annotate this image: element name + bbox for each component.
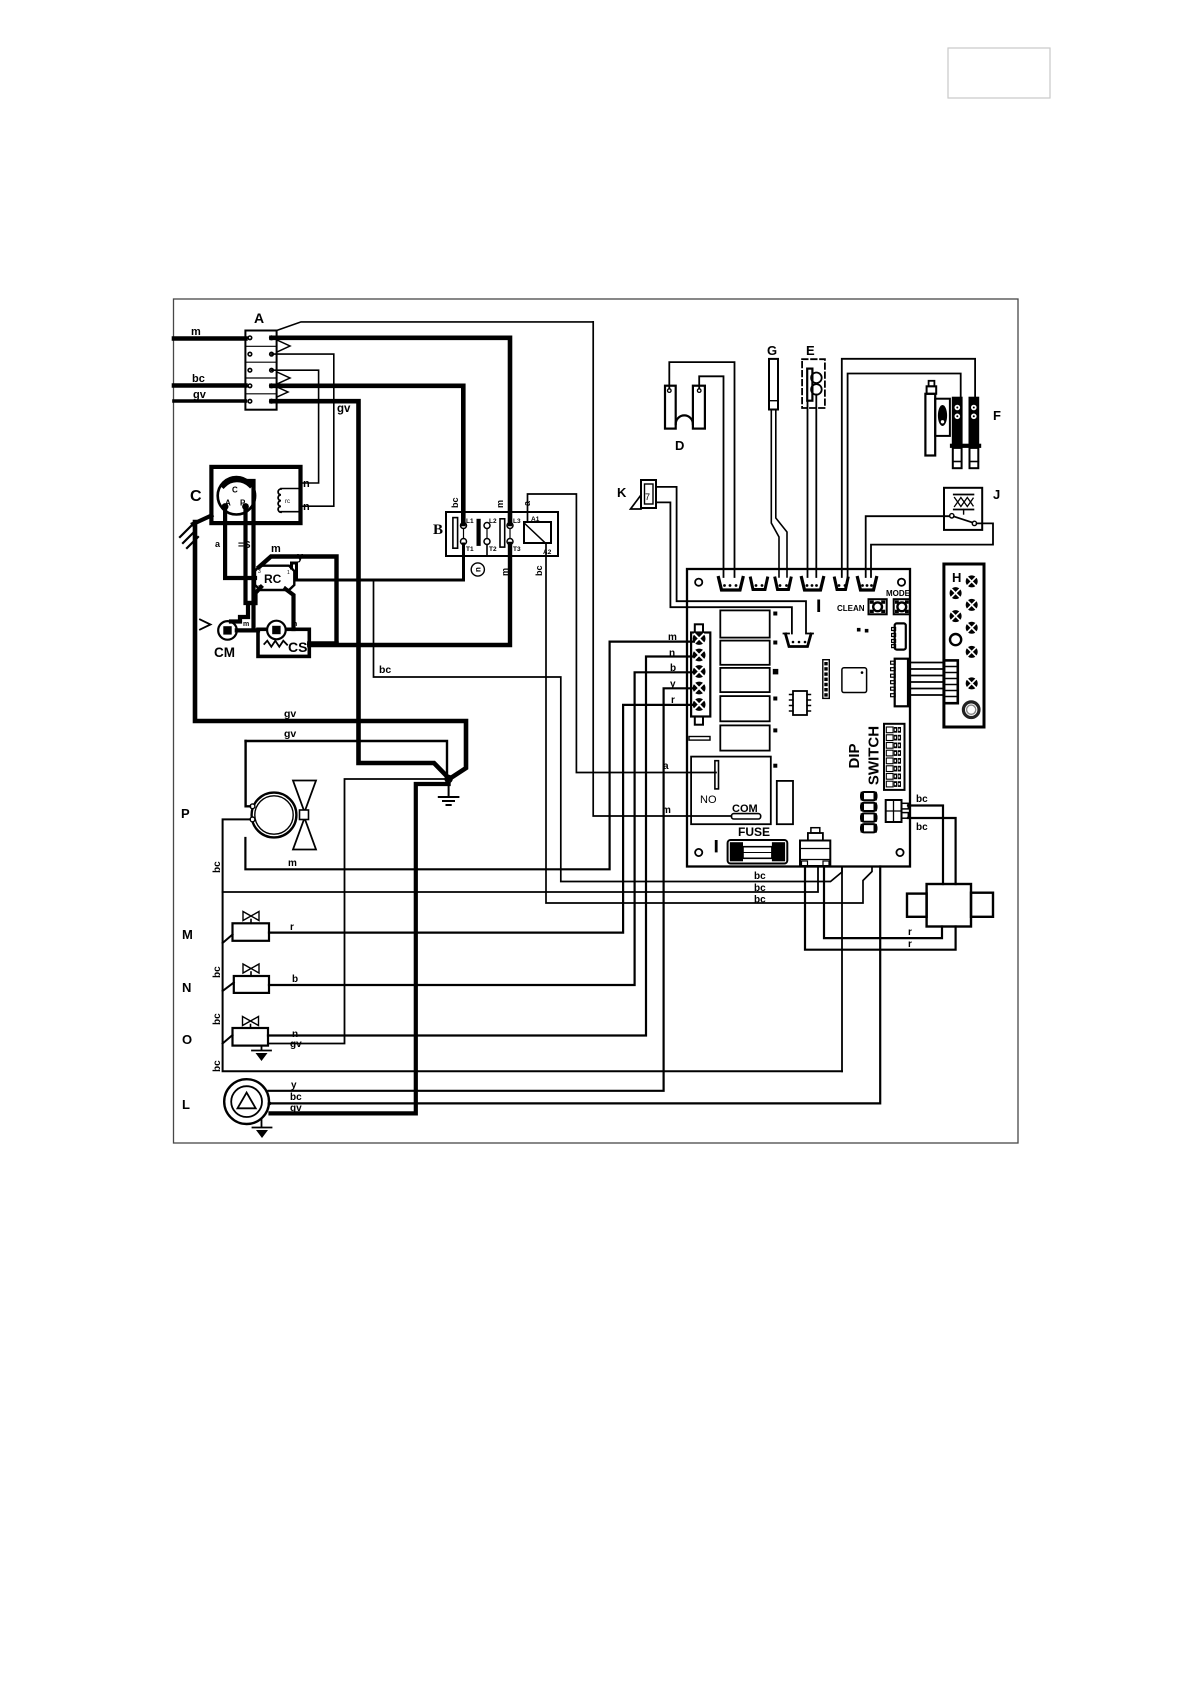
svg-text:NO: NO	[700, 794, 717, 806]
wire bc from A row4 to contactor B pole L1	[272, 386, 464, 524]
wire D lead2 to board conn1	[699, 376, 723, 577]
wire y from pump L to board pin y	[269, 688, 695, 1091]
thermostat J box	[944, 488, 982, 530]
terminal block A pin dots	[247, 335, 274, 404]
svg-text:r: r	[908, 939, 912, 950]
K lever	[631, 495, 642, 509]
svg-text:bc: bc	[379, 664, 391, 676]
svg-text:L2: L2	[489, 518, 497, 525]
top connector 1	[719, 578, 744, 591]
svg-text:K: K	[617, 485, 627, 500]
top connector 5	[835, 578, 849, 590]
earth junction node	[445, 776, 452, 783]
terminal block A	[245, 331, 276, 410]
compressor terminal dots	[222, 503, 249, 510]
svg-text:CLEAN: CLEAN	[837, 604, 865, 613]
wire n from A row3 to compressor coil upper	[272, 370, 319, 483]
H open circle l3	[950, 634, 961, 645]
inner connector for K wires	[786, 634, 812, 647]
valve M solenoid	[233, 923, 270, 941]
svg-text:m: m	[291, 621, 297, 628]
svg-text:bc: bc	[290, 1092, 302, 1103]
bc output connector	[886, 800, 902, 822]
wire gv from A row5 down to earth junction	[272, 401, 449, 778]
svg-text:J: J	[993, 487, 1000, 502]
svg-text:n: n	[473, 567, 482, 572]
svg-text:T3: T3	[513, 546, 521, 553]
top-right placeholder box	[948, 48, 1050, 98]
wire gv junction down to pump L	[271, 780, 449, 1113]
main relay NO/COM box	[691, 757, 771, 825]
small tick under connector	[689, 737, 710, 741]
svg-text:MODE: MODE	[886, 589, 911, 598]
start capacitor CS box	[258, 629, 309, 656]
wire bc input from mains	[174, 383, 245, 388]
valve O ground	[252, 1046, 271, 1051]
svg-text:L: L	[182, 1097, 190, 1112]
svg-text:P: P	[181, 806, 190, 821]
svg-text:y: y	[291, 1080, 297, 1091]
wire r1 transformer to board	[824, 867, 942, 939]
svg-text:B: B	[433, 522, 443, 538]
CS inner plate	[272, 626, 280, 634]
svg-text:FUSE: FUSE	[738, 825, 770, 839]
microcontroller IC	[842, 668, 867, 693]
wire a from coil A1 up over to board	[528, 494, 717, 773]
svg-text:m: m	[271, 543, 281, 555]
relay 4	[720, 696, 769, 721]
wire m from RC pin3 to contactor T3	[259, 544, 510, 645]
svg-text:gv: gv	[337, 403, 351, 415]
wire CS box right to m node	[309, 641, 336, 645]
svg-text:1: 1	[287, 570, 290, 576]
svg-text:A2: A2	[543, 549, 552, 556]
label I bar	[817, 600, 820, 613]
wire gv thin junction to valve O	[268, 779, 445, 1044]
svg-text:m: m	[500, 568, 510, 576]
bottom-left bar	[715, 840, 718, 852]
sensor G body	[769, 359, 778, 410]
svg-text:O: O	[182, 1032, 192, 1047]
svg-text:A1: A1	[531, 516, 540, 523]
contactor B body	[446, 512, 558, 556]
svg-text:gv: gv	[284, 728, 296, 740]
chain diagonal to N	[223, 983, 234, 992]
igniter F assembly	[925, 381, 981, 468]
fuse holder	[728, 840, 788, 864]
svg-text:rc: rc	[285, 499, 290, 505]
svg-text:C: C	[232, 486, 238, 495]
svg-text:r: r	[908, 927, 912, 938]
wire bc pair from board to transformer	[908, 806, 943, 885]
svg-text:b: b	[292, 974, 298, 985]
contactor white bar right	[500, 519, 505, 547]
wire K upper to board inner connector	[656, 487, 806, 634]
H lamp l2	[950, 610, 962, 622]
CS bleed resistor zigzag	[264, 641, 287, 647]
wire bc from fan lower terminal down chain	[223, 819, 842, 1071]
side relay rect	[777, 781, 793, 824]
T2 spare stub	[486, 545, 488, 556]
D pin circles	[668, 389, 672, 393]
svg-text:bc: bc	[916, 794, 928, 805]
pole L2-T2	[484, 523, 490, 529]
svg-text:T2: T2	[489, 546, 497, 553]
board left connector body	[691, 633, 710, 717]
coil A1-A2 box	[524, 522, 551, 543]
fan propeller	[293, 781, 316, 813]
J heater element	[954, 495, 974, 510]
valve N tap symbol	[243, 964, 259, 973]
H lamp r4	[966, 646, 978, 658]
svg-text:n: n	[303, 501, 310, 513]
contactor white bar left	[453, 518, 458, 549]
top connector 4	[802, 578, 824, 591]
CM spade arrow terminal	[200, 620, 211, 630]
svg-text:T1: T1	[466, 546, 474, 553]
chain diagonal to O	[223, 1035, 233, 1044]
wire RC pin4 down to CS box	[286, 589, 294, 629]
E sensor bulbs	[811, 373, 822, 384]
switch K body	[641, 480, 656, 508]
J switch contacts	[950, 514, 954, 518]
pump L	[224, 1079, 269, 1124]
svg-text:bc: bc	[916, 822, 928, 833]
relay pin pads	[773, 612, 779, 768]
ribbon wires board to H plug	[908, 663, 944, 696]
wire y from RC pin1 to contactor T1	[292, 544, 464, 580]
chain diagonal to M	[223, 935, 233, 944]
svg-text:m: m	[243, 621, 249, 628]
connector screw terminals	[693, 632, 706, 711]
pressure switch D right body	[693, 386, 705, 429]
svg-text:n: n	[303, 478, 310, 490]
top connector 6	[858, 578, 877, 591]
svg-text:y: y	[297, 551, 304, 563]
compressor C outer case	[211, 467, 300, 523]
chassis ground symbol at compressor	[193, 516, 211, 525]
CS circle	[267, 621, 286, 640]
D arc	[676, 415, 693, 424]
pole L3-T3	[507, 523, 513, 529]
A output chevron marks	[277, 340, 290, 352]
svg-text:bc: bc	[754, 883, 766, 894]
board corner holes	[695, 579, 702, 586]
page border frame	[174, 299, 1019, 1143]
H lamp r5	[966, 677, 978, 689]
svg-text:A: A	[254, 310, 264, 326]
compressor C motor circle	[218, 477, 255, 514]
wire m from A row1 to contactor B pole L3	[272, 338, 511, 524]
svg-text:gv: gv	[290, 1039, 302, 1050]
svg-text:bc: bc	[212, 861, 223, 873]
control board I outline	[687, 569, 910, 867]
wire r2 transformer to board	[805, 867, 956, 950]
relay 3	[720, 668, 769, 692]
6 wire connector	[895, 659, 908, 707]
valve O tap symbol	[243, 1017, 259, 1026]
svg-text:gv: gv	[284, 708, 296, 720]
sensor E dashed box	[802, 359, 825, 408]
relay 2	[720, 641, 769, 665]
wire gv fan loop to junction	[246, 741, 447, 776]
H lamp r1	[966, 575, 978, 587]
H lamp l1	[950, 587, 962, 599]
svg-text:RC: RC	[264, 572, 282, 586]
pump L ground	[253, 1120, 272, 1128]
wire J right contact loop to board conn6	[871, 523, 993, 577]
svg-text:CM: CM	[214, 645, 235, 660]
earth ground symbol	[439, 782, 459, 805]
wire E leads to board conn4	[807, 401, 809, 577]
small IC	[793, 691, 807, 715]
svg-text:bc: bc	[212, 966, 223, 978]
wire from compressor C terminal down to CS box	[245, 481, 254, 629]
wire n from A row2 to compressor coil lower	[272, 354, 334, 506]
svg-text:gv: gv	[290, 1103, 302, 1114]
NO contact bar	[715, 761, 719, 789]
svg-text:G: G	[767, 343, 777, 358]
pressure switch D left body	[665, 386, 676, 429]
compressor C thick top arc	[224, 480, 251, 486]
svg-text:7: 7	[645, 492, 650, 502]
fan motor P	[250, 793, 296, 838]
relay 1	[720, 610, 769, 637]
wire m input from mains	[174, 336, 245, 341]
compressor internal overload coil rc	[281, 489, 301, 512]
svg-text:bc: bc	[212, 1013, 223, 1025]
svg-text:bc: bc	[450, 497, 460, 508]
H lamp r3	[966, 622, 978, 634]
svg-text:L1: L1	[466, 518, 474, 525]
top connector 3	[775, 578, 791, 590]
wire K lower to board inner connector	[656, 502, 792, 633]
svg-text:C: C	[190, 488, 202, 505]
svg-text:F: F	[993, 408, 1001, 423]
svg-text:H: H	[952, 570, 961, 585]
svg-text:E: E	[806, 343, 815, 358]
H plug connector	[944, 660, 958, 703]
top connector 2	[751, 578, 768, 590]
power switch on board	[811, 828, 820, 833]
wire bc from pump L to board	[269, 867, 880, 1104]
wire r from valve M to board pin r	[269, 705, 694, 933]
small 4pin connector	[895, 623, 906, 649]
svg-text:gv: gv	[193, 389, 207, 401]
valve N solenoid	[234, 976, 269, 993]
CM inner plate	[223, 626, 231, 634]
svg-text:SWITCH: SWITCH	[866, 726, 883, 785]
wire bc tap from y wire down around to board	[374, 580, 843, 882]
wire thin from A top to node x593	[277, 322, 594, 331]
wire gv chassis loop down-left side	[195, 522, 466, 779]
DIP switch block	[884, 724, 905, 790]
wire J left contact to board conn6	[866, 516, 950, 577]
wire F electrode1 to board conn5	[842, 359, 975, 577]
wire D lead1 to board conn1	[669, 362, 734, 577]
svg-text:DIP: DIP	[846, 743, 863, 768]
wire G leads to board conn3	[771, 410, 779, 578]
wire CM to CS box	[237, 628, 258, 632]
svg-text:r: r	[290, 922, 294, 933]
H lamp r2	[966, 599, 978, 611]
svg-text:bc: bc	[192, 373, 205, 385]
svg-text:bc: bc	[754, 895, 766, 906]
svg-text:bc: bc	[534, 565, 544, 576]
wire F electrode2 to board conn5	[848, 374, 961, 578]
COM contact bar	[731, 814, 760, 819]
wire from compressor P terminal down to CM node	[246, 507, 256, 604]
valve M tap symbol	[243, 912, 259, 921]
H bottom ring	[963, 702, 979, 718]
svg-text:bc: bc	[212, 1060, 223, 1072]
circled n spare label	[471, 563, 484, 576]
svg-text:M: M	[182, 927, 193, 942]
transformer cross box	[927, 884, 971, 927]
CLEAN button	[869, 599, 887, 614]
wire b from valve N to board pin b	[269, 672, 694, 985]
svg-text:CS: CS	[288, 639, 307, 655]
contactor black bar mid	[477, 519, 481, 546]
svg-text:L3: L3	[513, 518, 521, 525]
wire node x593 vertical to COM m	[593, 322, 731, 816]
valve O solenoid	[233, 1028, 269, 1046]
E sensor bar	[807, 369, 812, 401]
display H box	[944, 564, 984, 727]
relay 5	[720, 725, 769, 750]
capacitor CM circle	[218, 621, 237, 640]
svg-text:3: 3	[258, 569, 261, 575]
wire n from valve O to board pin n	[268, 657, 694, 1036]
svg-text:D: D	[675, 438, 684, 453]
svg-text:m: m	[288, 858, 297, 869]
wire RC pin2 staircase to CM	[231, 587, 261, 622]
two tiny pads	[857, 628, 861, 632]
run capacitor RC body	[255, 566, 294, 590]
wire a from compressor A terminal to RC left	[225, 507, 255, 579]
wire bc from coil A2 down to board bc3	[546, 543, 872, 903]
wire gv from fan upper terminal	[246, 741, 250, 806]
0000 connector end caps	[862, 794, 875, 799]
coil diagonal	[525, 524, 545, 543]
pin header strip	[823, 660, 830, 699]
svg-text:N: N	[182, 980, 191, 995]
wire bc2 valve chain to board	[223, 867, 818, 893]
wire gv input from mains	[174, 399, 245, 403]
0000 connector row	[861, 792, 877, 800]
svg-text:bc: bc	[754, 871, 766, 882]
pole L1-T1	[461, 523, 467, 529]
svg-text:m: m	[495, 500, 505, 508]
MODE button	[894, 599, 910, 614]
wire bc1 lower run	[841, 867, 843, 1072]
svg-text:m: m	[191, 326, 201, 338]
wire m from fan to board pin m	[245, 642, 694, 870]
